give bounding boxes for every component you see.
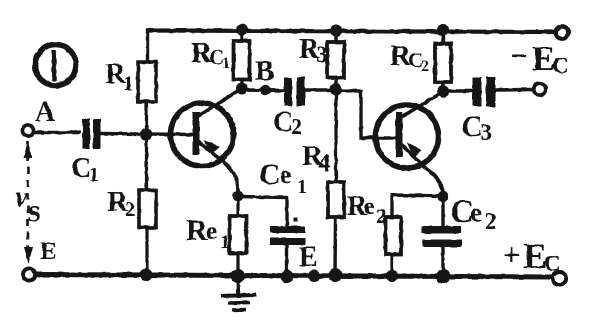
resistor Re2 bbox=[386, 217, 402, 255]
label R3 bbox=[299, 34, 328, 67]
top supply rail bbox=[146, 31, 557, 33]
wire emitter junction to Ce1 bbox=[238, 197, 287, 227]
node R3/R4/C2 junction bbox=[330, 83, 342, 95]
svg-text:e: e bbox=[470, 197, 482, 227]
svg-text:e: e bbox=[364, 194, 375, 220]
svg-text:1: 1 bbox=[89, 164, 99, 186]
transistor Q2 bbox=[376, 92, 444, 193]
resistor RC2 bbox=[435, 44, 451, 83]
wire node to R4 bbox=[334, 92, 337, 182]
ground bbox=[221, 278, 256, 310]
resistor Re1 bbox=[230, 216, 247, 253]
wire node to R1 bbox=[145, 62, 148, 129]
wire node to Q2 base bbox=[336, 91, 397, 139]
label C2 bbox=[273, 107, 302, 139]
wire node to R2 bbox=[145, 135, 148, 190]
node Re1-rail bbox=[231, 269, 245, 283]
svg-text:E: E bbox=[299, 242, 318, 273]
svg-text:A: A bbox=[35, 97, 56, 128]
wire emitter junction to Ce2 bbox=[441, 199, 444, 226]
svg-text:2: 2 bbox=[485, 209, 497, 234]
node Q1 emitter junction bbox=[233, 191, 244, 202]
svg-text:2: 2 bbox=[421, 58, 429, 75]
svg-text:−: − bbox=[511, 40, 528, 73]
svg-text:2: 2 bbox=[376, 204, 387, 228]
label C3 bbox=[461, 110, 492, 146]
resistor RC1 bbox=[234, 41, 250, 80]
svg-text:3: 3 bbox=[316, 42, 328, 67]
terminal +Ec bbox=[553, 272, 566, 285]
node Ce2-rail bbox=[436, 270, 450, 284]
svg-text:2: 2 bbox=[291, 114, 302, 139]
svg-text:E: E bbox=[40, 238, 57, 265]
node B junction bbox=[236, 83, 248, 95]
wire Re2 to bottom rail bbox=[390, 255, 393, 276]
node rail blob bbox=[308, 270, 320, 282]
wire emitter junction to Re1 bbox=[236, 199, 239, 216]
node R2-rail bbox=[140, 269, 153, 282]
label +Ec bbox=[503, 236, 561, 276]
label RC2 bbox=[390, 40, 429, 75]
wire Ce1 to bottom rail bbox=[285, 245, 288, 275]
label -Ec bbox=[511, 39, 569, 78]
node B wire dot bbox=[260, 85, 270, 95]
label C1 bbox=[71, 153, 99, 186]
wire R3 to node bbox=[334, 78, 337, 86]
capacitor C2 bbox=[284, 77, 305, 106]
wire C2 to node R3/R4 bbox=[305, 88, 334, 92]
wire R1 to top rail bbox=[146, 29, 149, 62]
resistor R4 bbox=[328, 182, 344, 217]
wire B to C2 bbox=[242, 88, 284, 92]
resistor R2 bbox=[139, 190, 156, 228]
terminal -Ec bbox=[556, 26, 568, 38]
svg-text:1: 1 bbox=[222, 55, 230, 72]
resistor R1 bbox=[138, 62, 156, 102]
label RC1 bbox=[191, 37, 230, 72]
svg-text:3: 3 bbox=[480, 120, 492, 146]
svg-text:e: e bbox=[280, 160, 292, 189]
wire rail to RC2 bbox=[441, 31, 444, 44]
capacitor Ce2 bbox=[422, 226, 462, 247]
svg-text:1: 1 bbox=[220, 231, 230, 253]
svg-text:4: 4 bbox=[318, 150, 331, 177]
node Q2 emitter junction bbox=[437, 191, 448, 202]
svg-text:s: s bbox=[28, 192, 40, 228]
node base Q1 junction bbox=[140, 129, 152, 141]
node RC1 top rail bbox=[236, 24, 248, 36]
terminal E bbox=[23, 269, 35, 281]
svg-text:2: 2 bbox=[125, 197, 136, 221]
label R4 bbox=[302, 140, 331, 177]
wire C1 to base node bbox=[101, 134, 195, 135]
wire rail to R3 bbox=[334, 31, 337, 42]
svg-text:B: B bbox=[255, 55, 274, 87]
label vs bbox=[15, 182, 40, 228]
wire RC1 to node B bbox=[240, 80, 243, 89]
vs source dashed indicator line bbox=[24, 140, 34, 264]
wire rail to RC1 bbox=[240, 31, 243, 41]
node Q2 collector junction bbox=[437, 85, 449, 97]
wire C3 to output terminal bbox=[496, 88, 534, 92]
svg-text:C: C bbox=[259, 158, 281, 191]
terminal output bbox=[534, 84, 546, 96]
svg-text:C: C bbox=[552, 53, 569, 78]
label Re2 bbox=[347, 191, 387, 228]
wire R4 to bottom rail bbox=[333, 217, 337, 275]
label R2 bbox=[107, 186, 136, 221]
svg-text:R: R bbox=[186, 214, 208, 247]
capacitor Ce1 bbox=[270, 218, 306, 246]
node RC2 top rail bbox=[437, 24, 449, 36]
circuit number label I (circled) bbox=[35, 45, 76, 86]
label Ce1 bbox=[259, 158, 307, 198]
node R3 top rail bbox=[330, 25, 342, 37]
label Ce2 bbox=[450, 194, 497, 234]
terminal A bbox=[22, 125, 33, 136]
capacitor C3 bbox=[473, 77, 496, 107]
svg-text:+: + bbox=[503, 237, 521, 272]
resistor R3 bbox=[328, 42, 345, 78]
svg-text:v: v bbox=[15, 182, 28, 213]
svg-text:C: C bbox=[544, 251, 561, 276]
svg-text:1: 1 bbox=[123, 71, 134, 95]
capacitor C1 bbox=[83, 119, 101, 150]
wire RC2 to collector node bbox=[441, 82, 444, 91]
node Ce1-rail bbox=[281, 270, 294, 283]
svg-text:1: 1 bbox=[297, 176, 307, 198]
label R1 bbox=[105, 58, 134, 95]
wire node to C3 bbox=[443, 89, 473, 93]
wire A to C1 bbox=[34, 131, 81, 134]
node R4-rail bbox=[328, 268, 342, 282]
wire R2 to bottom rail bbox=[145, 228, 148, 275]
transistor Q1 bbox=[171, 90, 241, 193]
wire Ce2 to bottom rail bbox=[441, 247, 444, 275]
wire Re1 to bottom rail bbox=[236, 253, 239, 275]
wire emitter junction to Re2 bbox=[392, 195, 443, 217]
node Re2-rail bbox=[386, 270, 398, 282]
bottom supply rail bbox=[35, 275, 554, 278]
label Re1 bbox=[186, 214, 230, 253]
svg-text:e: e bbox=[206, 218, 217, 245]
